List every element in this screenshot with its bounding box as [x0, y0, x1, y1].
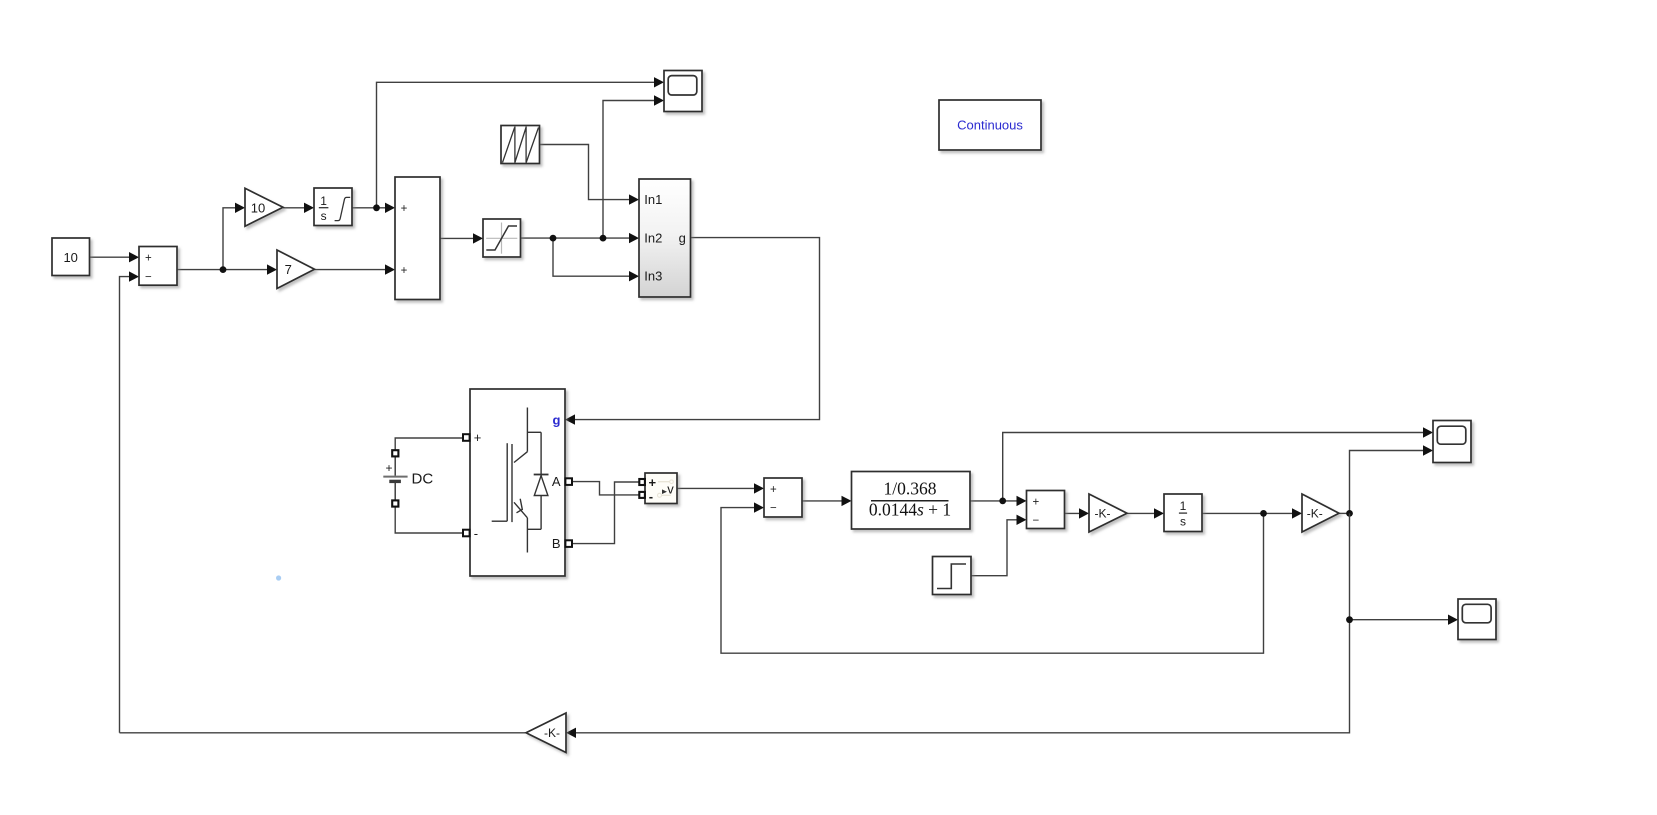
- arrow into transfer fcn: [842, 496, 852, 506]
- sum block bigsum: [395, 177, 440, 300]
- svg-text:-: -: [474, 526, 478, 541]
- svg-text:7: 7: [285, 262, 292, 277]
- arrow into integrator2: [1154, 508, 1164, 518]
- wire branch down to In3: [553, 238, 632, 276]
- wire branch to gain7: [223, 269, 270, 271]
- wire gainK3 output to left feedback vertical: [120, 732, 527, 734]
- wire saturation to subsystem In2: [521, 237, 633, 239]
- wire transfer fcn output up to scope2 input1: [1003, 433, 1426, 501]
- arrow into subsystem In2: [629, 233, 639, 243]
- svg-text:−: −: [770, 503, 777, 515]
- wire transfer fcn output to sum3: [970, 500, 1020, 502]
- wire bridge B to voltmeter plus: [572, 482, 639, 544]
- wire sum3 to gainK1: [1065, 512, 1083, 514]
- node junction saturation output: [550, 235, 557, 242]
- powergui block Continuous: [939, 100, 1041, 150]
- svg-text:Continuous: Continuous: [957, 118, 1023, 133]
- svg-text:s: s: [1180, 515, 1186, 529]
- wire bigsum to saturation: [440, 237, 476, 239]
- arrow into subsystem In1: [629, 194, 639, 204]
- wire speed feedback to sum2 minus: [721, 508, 1264, 654]
- transfer fcn block 1/0.368 over 0.0144s+1: [852, 472, 971, 530]
- svg-text:g: g: [553, 413, 561, 428]
- wire branch to scope3: [1350, 619, 1452, 621]
- arrow into gainK3 (left pointing): [566, 728, 576, 738]
- scope block Scope3: [1458, 599, 1496, 640]
- svg-text:10: 10: [63, 250, 77, 265]
- sum block Sum3: [1027, 491, 1065, 529]
- arrow into sum3 plus: [1017, 496, 1027, 506]
- constant block 10: [52, 238, 90, 276]
- svg-text:g: g: [679, 230, 686, 245]
- node junction scope3 branch: [1346, 616, 1353, 623]
- wire gainK2 output: [1339, 512, 1350, 514]
- wire gain10 to integrator1: [283, 207, 307, 209]
- integrator block 1/s second: [1164, 494, 1202, 532]
- wire gainK2 output up to scope2 input2: [1350, 451, 1427, 514]
- node junction integrator1 output: [373, 204, 380, 211]
- svg-text:+: +: [401, 203, 408, 215]
- bridge port B: [565, 540, 572, 547]
- arrow into gainK2: [1292, 508, 1302, 518]
- node junction sum1 output: [220, 266, 227, 273]
- repeating sequence block (sawtooth): [501, 126, 540, 164]
- svg-text:DC: DC: [412, 471, 434, 488]
- wire bridge A to voltmeter minus: [572, 482, 639, 495]
- wire branch up to gain10: [223, 208, 238, 270]
- voltage measurement block: [645, 473, 677, 504]
- gain block K3 feedback (left pointing): [526, 713, 566, 753]
- wire integrator1 output up to scope1 input1: [377, 82, 658, 208]
- svg-text:-K-: -K-: [544, 726, 560, 740]
- gain block K2: [1302, 494, 1339, 532]
- arrow into bigsum top: [385, 203, 395, 213]
- arrow into saturation: [473, 233, 483, 243]
- wire gainK1 to integrator2: [1127, 512, 1157, 514]
- sum block Sum1: [139, 247, 177, 286]
- saturation block: [483, 219, 521, 257]
- arrow into scope3: [1448, 615, 1458, 625]
- wire step to sum3 minus: [971, 520, 1020, 576]
- wire repeating sequence to subsystem In1: [540, 145, 633, 200]
- arrow into sum2 minus: [754, 502, 764, 512]
- wire integrator2 output to gainK2: [1202, 512, 1295, 514]
- svg-text:+: +: [770, 484, 777, 496]
- more groups appended below: [383, 389, 1496, 753]
- voltmeter port plus: [639, 479, 645, 485]
- wire subsystem g output to bridge gate input: [572, 238, 820, 420]
- sum block Sum2: [764, 478, 802, 517]
- wire sum2 to transfer fcn: [802, 500, 845, 502]
- voltmeter port minus: [639, 492, 645, 498]
- svg-text:A: A: [552, 474, 561, 489]
- arrow into gain7: [267, 264, 277, 274]
- wire DC plus to bridge plus: [395, 438, 462, 450]
- arrow into bigsum bottom: [385, 264, 395, 274]
- node junction gainK2 output: [1346, 510, 1353, 517]
- svg-text:10: 10: [251, 200, 265, 215]
- node junction transfer fcn output: [999, 498, 1006, 505]
- arrow into sum1 plus: [129, 252, 139, 262]
- svg-text:s: s: [321, 209, 327, 223]
- svg-text:+: +: [474, 430, 482, 445]
- arrow into bridge gate (left pointing): [565, 414, 575, 424]
- svg-text:-: -: [649, 489, 653, 504]
- annotation dot: [276, 575, 281, 580]
- wire sum1 output: [177, 269, 223, 271]
- arrow into scope2 input2: [1423, 445, 1433, 455]
- arrow into subsystem In3: [629, 271, 639, 281]
- step block: [933, 557, 972, 595]
- svg-text:B: B: [552, 536, 561, 551]
- svg-text:-K-: -K-: [1095, 507, 1111, 521]
- integrator block 1/s: [314, 188, 352, 226]
- arrow into scope1 input1: [654, 77, 664, 87]
- svg-text:0.0144s + 1: 0.0144s + 1: [869, 500, 951, 520]
- arrow into gainK1: [1079, 508, 1089, 518]
- svg-text:+: +: [401, 265, 408, 277]
- arrow into sum3 minus: [1017, 515, 1027, 525]
- arrow into sum2 plus: [754, 483, 764, 493]
- svg-text:+: +: [145, 252, 152, 264]
- gain block 7: [277, 250, 315, 289]
- wire integrator1 output to bigsum: [352, 207, 388, 209]
- svg-text:-K-: -K-: [1307, 507, 1323, 521]
- arrow into gain10: [235, 203, 245, 213]
- arrow into scope2 input1: [1423, 427, 1433, 437]
- svg-text:In1: In1: [644, 192, 662, 207]
- gain block K1: [1089, 494, 1127, 532]
- arrow into integrator1: [304, 203, 314, 213]
- wire feedback left vertical into sum1 minus: [120, 277, 133, 733]
- wire gain7 to bigsum: [315, 269, 389, 271]
- wire voltmeter output to sum2: [677, 487, 757, 489]
- scope block Scope2: [1433, 421, 1471, 463]
- node junction In2 line: [600, 235, 607, 242]
- universal bridge block: [470, 389, 565, 576]
- bridge internal IGBT Q1: [526, 408, 528, 452]
- wire branch up to scope1 input2: [603, 101, 657, 239]
- svg-text:1: 1: [320, 194, 327, 208]
- svg-text:+: +: [386, 461, 393, 475]
- svg-text:In2: In2: [644, 230, 662, 245]
- DC voltage source battery: [394, 456, 396, 476]
- scope block Scope1: [664, 71, 702, 112]
- svg-text:v: v: [667, 482, 674, 497]
- bridge port A: [565, 478, 572, 485]
- wire DC minus to bridge minus: [395, 506, 462, 533]
- svg-text:+: +: [1032, 497, 1039, 509]
- svg-text:+: +: [649, 475, 657, 490]
- gain block 10: [245, 188, 283, 226]
- wire constant10 to sum1: [89, 256, 132, 258]
- svg-text:In3: In3: [644, 269, 662, 284]
- arrow into scope1 input2: [654, 95, 664, 105]
- bridge port plus: [463, 434, 470, 441]
- svg-text:−: −: [1032, 515, 1039, 527]
- wire gainK2 output down to bottom feedback: [573, 513, 1350, 732]
- arrow into sum1 minus: [129, 271, 139, 281]
- subsystem block In1 In2 In3 g: [639, 179, 691, 297]
- node junction integrator2 output: [1260, 510, 1267, 517]
- svg-text:1/0.368: 1/0.368: [884, 479, 937, 499]
- svg-text:1: 1: [1180, 499, 1187, 513]
- svg-text:−: −: [145, 272, 152, 284]
- bridge port minus: [463, 530, 470, 537]
- bridge internal diode D1: [540, 432, 542, 529]
